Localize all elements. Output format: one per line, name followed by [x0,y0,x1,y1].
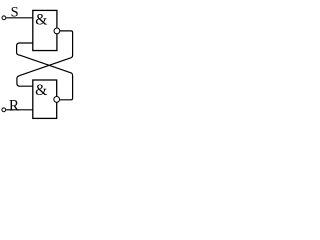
nand gate U1 body [33,10,57,50]
wire Qb net: U2 output to U1 lower input (crosses Q) [17,43,73,100]
output bubble U2 [54,97,60,103]
wire S input [6,17,33,19]
input terminal R [2,108,6,112]
wire Q net: U1 output to U2 upper input (crosses Qb) [17,31,73,86]
nand gate U2 body [33,80,57,118]
svg-text:R: R [9,97,20,114]
svg-text:S: S [11,5,19,21]
input terminal S [2,16,6,20]
wire R input [6,109,33,111]
svg-text:&: & [35,12,47,29]
svg-text:&: & [35,82,47,99]
output bubble U1 [54,28,60,34]
